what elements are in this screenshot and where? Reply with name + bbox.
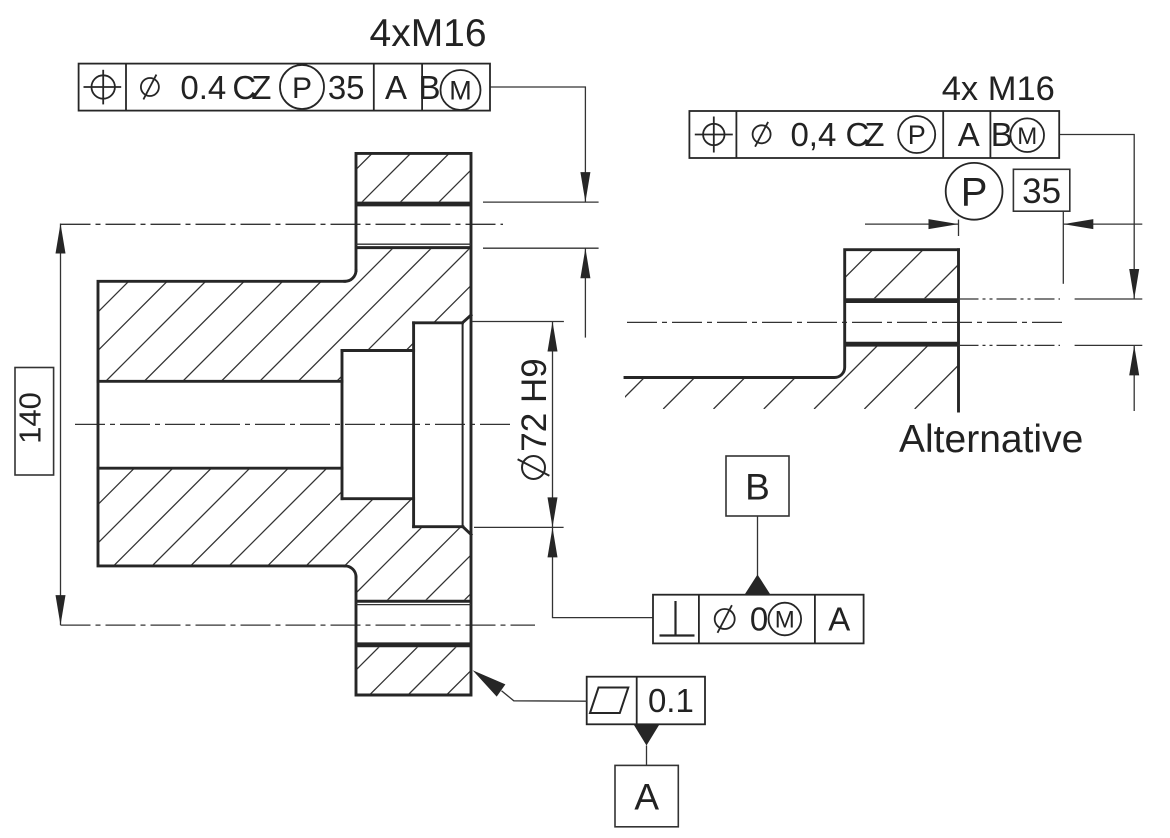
svg-text:4xM16: 4xM16 bbox=[370, 12, 487, 55]
flange outline left view bbox=[356, 153, 471, 695]
svg-text:Alternative: Alternative bbox=[899, 418, 1083, 461]
tick below 35 box bbox=[1062, 211, 1064, 284]
svg-text:A: A bbox=[958, 116, 980, 153]
projected zone modifier P bbox=[898, 116, 935, 153]
projected zone P dimension line right part bbox=[1063, 223, 1142, 225]
svg-text:140: 140 bbox=[13, 392, 48, 444]
hub outline bbox=[98, 281, 345, 566]
svg-text:A: A bbox=[828, 601, 850, 638]
position symbol bbox=[92, 75, 115, 98]
perpendicularity symbol bbox=[674, 601, 676, 636]
svg-text:0,4: 0,4 bbox=[790, 116, 836, 153]
dia72 diameter symbol bbox=[522, 456, 545, 479]
datum B box bbox=[726, 456, 789, 516]
svg-text:A: A bbox=[634, 777, 659, 818]
top hole centerline bbox=[61, 223, 504, 225]
alternative view boss outline bbox=[625, 250, 959, 378]
bottom M16 hole thread lines bbox=[356, 600, 471, 603]
dia72 extension lines bbox=[473, 321, 564, 323]
datum B leader and triangle bbox=[757, 516, 759, 576]
svg-text:M: M bbox=[1017, 123, 1037, 150]
P projected circle bbox=[946, 163, 1003, 220]
middle bore walls bbox=[342, 349, 414, 352]
position symbol bbox=[703, 124, 724, 145]
svg-text:B: B bbox=[991, 116, 1013, 153]
projected tolerance zone phantom lines bbox=[959, 298, 1061, 300]
top hole extension lines bbox=[483, 201, 599, 203]
FCF position right box bbox=[689, 111, 1059, 158]
projected zone modifier P bbox=[280, 65, 324, 109]
dia72 dimension line bbox=[552, 322, 554, 528]
right thread dimension extension lines bbox=[1075, 298, 1143, 300]
bore 72 entrance chamfers bbox=[462, 315, 471, 323]
diameter symbol bbox=[141, 78, 159, 96]
svg-text:0.4: 0.4 bbox=[180, 69, 226, 106]
fillet top flange-hub bbox=[345, 271, 356, 282]
svg-text:A: A bbox=[385, 69, 407, 106]
svg-text:4x M16: 4x M16 bbox=[942, 70, 1055, 108]
leader from top FCF bbox=[490, 87, 585, 202]
chamfer circle edge bbox=[462, 323, 464, 527]
dimension 140 line bbox=[60, 224, 62, 626]
bottom hole centerline bbox=[61, 624, 536, 626]
section hatching left view bbox=[0, 153, 989, 695]
section hatching alternative view bbox=[512, 249, 1074, 409]
35 box bbox=[1013, 169, 1069, 211]
alternative view hole centerline bbox=[627, 321, 1062, 323]
datum A triangle below FCF bbox=[634, 724, 660, 745]
svg-text:B: B bbox=[418, 69, 440, 106]
svg-text:M: M bbox=[449, 76, 472, 106]
svg-text:B: B bbox=[745, 467, 770, 508]
leader to flange face with arrow bbox=[502, 691, 587, 701]
svg-text:M: M bbox=[775, 606, 795, 633]
FCF position top-left box bbox=[79, 64, 490, 111]
projected zone P dimension line left part bbox=[865, 223, 959, 225]
svg-text:0.1: 0.1 bbox=[648, 682, 694, 719]
flatness parallelogram symbol bbox=[590, 688, 628, 714]
svg-text:P: P bbox=[961, 171, 988, 215]
diameter symbol bbox=[715, 609, 735, 629]
central bore walls bbox=[98, 380, 342, 383]
fillet bottom flange-hub bbox=[345, 566, 356, 577]
tick below P circle bbox=[958, 220, 960, 236]
alternative view thread lines bbox=[845, 298, 959, 303]
bore 72 walls bbox=[414, 321, 463, 324]
svg-text:0: 0 bbox=[750, 601, 768, 638]
top M16 hole thread lines bbox=[356, 202, 471, 207]
leader from right FCF bbox=[1059, 135, 1134, 300]
svg-text:P: P bbox=[908, 120, 926, 150]
svg-text:CZ: CZ bbox=[846, 116, 885, 153]
alternative view right face bbox=[957, 250, 960, 411]
FCF perpendicularity box bbox=[653, 595, 864, 644]
svg-text:35: 35 bbox=[1022, 172, 1061, 211]
svg-text:CZ: CZ bbox=[232, 69, 271, 106]
datum A box bbox=[615, 765, 678, 826]
leader from perpendicularity FCF bbox=[553, 527, 654, 617]
svg-text:35: 35 bbox=[328, 69, 365, 106]
main axis centerline bbox=[75, 423, 512, 425]
FCF flatness box bbox=[587, 677, 705, 725]
dimension 140 box bbox=[15, 368, 54, 476]
middle bore step face bbox=[341, 351, 344, 499]
svg-text:72 H9: 72 H9 bbox=[515, 358, 554, 451]
diameter symbol bbox=[753, 125, 771, 143]
bore 72 end wall bbox=[412, 323, 415, 527]
svg-text:P: P bbox=[292, 72, 312, 105]
